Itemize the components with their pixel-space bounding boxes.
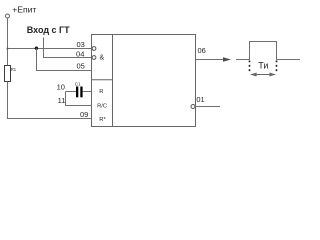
svg-text:C1: C1	[75, 82, 81, 87]
svg-text:09: 09	[80, 110, 88, 119]
arrowhead left	[250, 73, 256, 77]
svg-text:03: 03	[76, 40, 84, 49]
svg-text:R: R	[99, 89, 103, 95]
wire pin 06	[196, 59, 226, 61]
waveform pulse Ти	[236, 42, 300, 60]
svg-text:10: 10	[57, 82, 65, 91]
wire +Epit rail down to resistor	[7, 18, 9, 65]
dimension arrow Ти	[251, 74, 275, 76]
IC U1 body	[92, 35, 196, 127]
wire pin 10 right segment to IC	[83, 91, 92, 93]
svg-text:+Епит: +Епит	[12, 4, 36, 14]
svg-text:Ти: Ти	[258, 61, 268, 71]
input bubble pin 03	[92, 47, 96, 51]
svg-text:R*: R*	[99, 117, 106, 123]
input bubble pin 04	[92, 56, 96, 60]
svg-text:R/C: R/C	[97, 103, 107, 109]
svg-text:05: 05	[76, 62, 84, 71]
resistor R1	[5, 66, 11, 82]
wire pin 03 from rail to IC	[8, 48, 93, 50]
svg-text:11: 11	[58, 96, 66, 105]
junction dot rail / pin03	[7, 48, 9, 50]
terminal +Епит	[6, 14, 10, 18]
svg-text:&: &	[100, 55, 105, 62]
svg-text:06: 06	[198, 46, 206, 55]
svg-text:01: 01	[196, 95, 204, 104]
wire pin 10 left segment	[66, 91, 77, 93]
arrowhead pin 06	[223, 57, 231, 62]
IC divider vertical	[112, 35, 114, 127]
output bubble pin 01	[191, 105, 195, 109]
wire resistor bottom to pin 09	[8, 82, 93, 119]
arrowhead right	[269, 73, 275, 77]
IC divider horizontal	[92, 79, 113, 81]
dotted pulse edge right	[276, 61, 278, 73]
svg-text:04: 04	[76, 49, 84, 58]
svg-text:Вход с ГТ: Вход с ГТ	[27, 25, 70, 35]
capacitor C1 right plate	[80, 87, 82, 98]
wire drop to pin 05	[37, 49, 93, 71]
svg-text:R1: R1	[11, 67, 17, 72]
wire input drop to pin 04	[44, 38, 93, 58]
wire pin 01	[196, 106, 221, 108]
wire pin 11 bracket	[66, 92, 93, 106]
capacitor C1 left plate	[76, 87, 78, 98]
dotted pulse edge left	[249, 61, 251, 73]
junction dot pin03 / pin05	[35, 47, 38, 50]
